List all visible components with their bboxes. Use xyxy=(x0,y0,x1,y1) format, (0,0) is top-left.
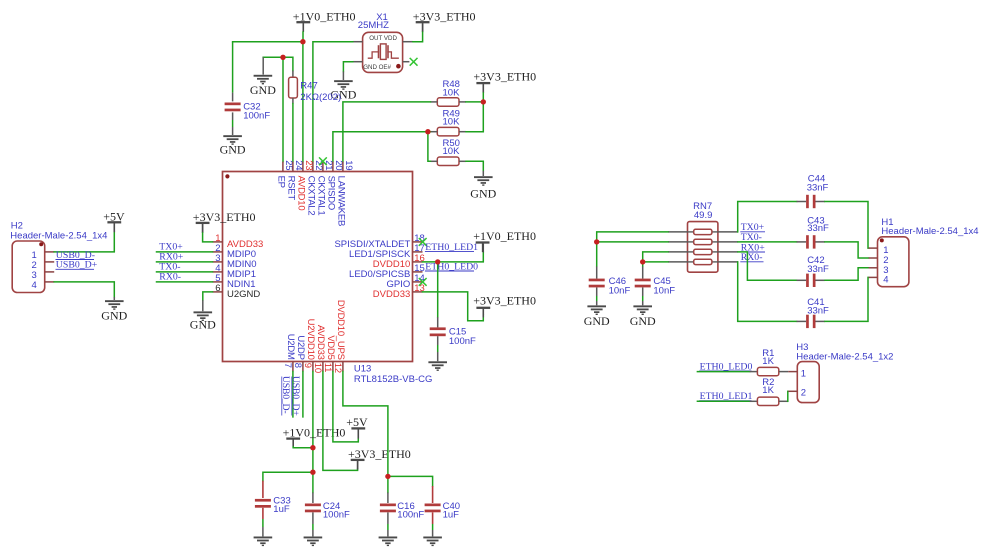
wire xyxy=(357,429,359,438)
resistor R1 1K xyxy=(757,348,778,376)
U13 pin 4 MDIP1 xyxy=(213,263,257,280)
wire xyxy=(459,101,466,103)
U13 pin 17 LED1/SPISCK xyxy=(349,243,425,260)
svg-text:Header-Male-2.54_1x4: Header-Male-2.54_1x4 xyxy=(10,231,107,242)
capacitor C46 10nF xyxy=(589,267,631,306)
svg-text:AVDD10: AVDD10 xyxy=(295,176,306,211)
wire xyxy=(54,232,114,252)
net label RX0+ xyxy=(740,242,765,253)
wire xyxy=(113,223,115,232)
wire xyxy=(428,132,431,162)
svg-text:100nF: 100nF xyxy=(323,509,350,520)
power +1V0_ETH0 xyxy=(473,229,536,252)
wire xyxy=(312,472,314,492)
capacitor C33 1uF xyxy=(255,481,291,537)
power +1V0_ETH0 xyxy=(283,426,346,449)
junction xyxy=(280,55,285,60)
wire xyxy=(292,372,294,417)
net label ETH0_LED1 xyxy=(425,242,478,253)
wire xyxy=(466,101,483,103)
wire xyxy=(437,262,439,317)
svg-text:2KΩ(202): 2KΩ(202) xyxy=(300,92,341,103)
U13 pin 13 DVDD33 xyxy=(373,283,425,300)
svg-text:9: 9 xyxy=(302,363,313,368)
RN7 pin left 3 xyxy=(668,251,688,253)
svg-text:25MHZ: 25MHZ xyxy=(358,20,389,31)
svg-text:100nF: 100nF xyxy=(397,509,424,520)
ground xyxy=(630,305,656,328)
net label TX0- xyxy=(740,232,763,243)
resistor R49 10K xyxy=(437,109,460,136)
power +5V xyxy=(346,415,368,438)
wire xyxy=(482,244,484,253)
capacitor C15 xyxy=(430,317,476,361)
wire xyxy=(202,300,204,311)
net label ETH0_LED0 xyxy=(699,361,752,372)
wire xyxy=(202,224,204,233)
wire xyxy=(459,160,466,162)
U13 pin 2 MDIP0 xyxy=(213,243,257,260)
svg-text:10nF: 10nF xyxy=(609,286,631,297)
wire xyxy=(597,241,668,243)
RN7 pin left 2 xyxy=(668,241,688,243)
svg-text:19: 19 xyxy=(343,160,354,170)
no-connect U13 pin 21 xyxy=(319,157,327,165)
U13 pin 3 MDIN0 xyxy=(213,253,257,270)
junction xyxy=(435,259,440,264)
ground xyxy=(379,537,398,547)
wire xyxy=(157,281,213,283)
U13 pin 6 U2GND xyxy=(213,283,261,300)
wire xyxy=(333,132,431,162)
wire xyxy=(203,292,213,300)
svg-text:33nF: 33nF xyxy=(807,182,829,193)
svg-text:RSET: RSET xyxy=(285,176,296,201)
wire xyxy=(342,72,344,81)
U13 pin 11 VDD5 xyxy=(322,335,336,372)
net label USB0_D- xyxy=(56,250,96,261)
power +5V xyxy=(103,210,125,232)
wire xyxy=(430,131,437,133)
ground xyxy=(428,361,447,371)
wire xyxy=(825,277,869,321)
ground xyxy=(254,537,273,547)
wire xyxy=(113,297,115,300)
svg-text:+3V3_ETH0: +3V3_ETH0 xyxy=(193,210,256,224)
net label RX0+ xyxy=(159,252,184,263)
wire xyxy=(738,241,797,243)
wire xyxy=(357,461,359,469)
crystal X1 25MHZ xyxy=(358,12,403,72)
svg-text:Header-Male-2.54_1x2: Header-Male-2.54_1x2 xyxy=(796,351,893,362)
wire xyxy=(597,232,668,242)
wire xyxy=(263,56,283,58)
X1 pin OE# xyxy=(403,61,410,63)
capacitor C42 33nF xyxy=(797,255,829,287)
capacitor C44 33nF xyxy=(797,174,829,209)
net label TX0+ xyxy=(740,222,765,233)
U13 pin 18 SPISDI/XTALDET xyxy=(334,233,424,250)
wire xyxy=(312,372,314,473)
net label ETH0_LED1 xyxy=(699,391,752,402)
U13 pin 5 NDIN1 xyxy=(213,273,256,290)
capacitor C43 33nF xyxy=(797,215,829,248)
power +3V3_ETH0 xyxy=(348,447,411,470)
wire xyxy=(738,252,797,280)
wire xyxy=(302,23,304,32)
wire xyxy=(413,32,423,42)
net label TX0+ xyxy=(159,242,183,253)
net label USB0_D+ (vertical) xyxy=(290,376,301,416)
wire xyxy=(825,268,869,281)
wire xyxy=(825,202,869,249)
junction xyxy=(310,470,315,475)
svg-text:33nF: 33nF xyxy=(807,306,829,317)
wire xyxy=(466,102,483,132)
connector H3 Header-Male-2.54_1x2 xyxy=(788,342,893,402)
svg-text:10K: 10K xyxy=(443,117,461,128)
net label RX0- xyxy=(740,252,763,263)
U13 pin 22 CKXTAL2 xyxy=(305,160,324,215)
resistor network RN7 49.9 xyxy=(688,201,718,272)
svg-text:+3V3_ETH0: +3V3_ETH0 xyxy=(473,70,536,84)
wire xyxy=(642,262,644,267)
power +1V0_ETH0 xyxy=(293,9,356,32)
wire xyxy=(697,400,749,402)
svg-text:+1V0_ETH0: +1V0_ETH0 xyxy=(283,426,346,440)
U13 pin 16 DVDD10 xyxy=(373,253,425,270)
svg-text:CKXTAL1: CKXTAL1 xyxy=(315,176,326,216)
wire xyxy=(779,371,789,373)
wire xyxy=(482,93,484,102)
net label USB0_D- (vertical) xyxy=(280,376,291,416)
wire xyxy=(643,252,668,262)
wire xyxy=(262,57,264,74)
capacitor C45 10nF xyxy=(635,267,676,306)
U13 pin 19 LANWAKEB xyxy=(335,160,354,226)
svg-text:U2DM: U2DM xyxy=(285,334,296,360)
svg-text:4: 4 xyxy=(883,275,888,286)
wire xyxy=(203,233,213,242)
ground xyxy=(584,305,610,328)
no-connect U13 pin 18 xyxy=(419,238,427,246)
wire xyxy=(282,57,284,161)
svg-text:CKXTAL2: CKXTAL2 xyxy=(305,176,316,216)
wire xyxy=(423,252,484,262)
junction xyxy=(481,99,486,104)
svg-text:+5V: +5V xyxy=(346,415,368,429)
connector H1 Header-Male-2.54_1x4 xyxy=(869,217,979,287)
U13 pin 24 RSET xyxy=(285,160,304,200)
RN7 pin right 4 xyxy=(718,261,738,263)
svg-text:DVDD33: DVDD33 xyxy=(373,289,411,300)
svg-text:7: 7 xyxy=(282,363,293,368)
svg-text:GND: GND xyxy=(363,64,377,71)
wire xyxy=(779,400,788,402)
power +3V3_ETH0 xyxy=(413,9,476,32)
svg-text:AVDD33: AVDD33 xyxy=(315,325,326,360)
resistor R48 10K xyxy=(437,79,460,106)
svg-text:+1V0_ETH0: +1V0_ETH0 xyxy=(473,229,536,243)
svg-text:DVDD10_UPS: DVDD10_UPS xyxy=(335,300,346,360)
U13 pin 21 CKXTAL1 xyxy=(315,160,334,215)
junction xyxy=(385,474,390,479)
wire xyxy=(333,372,358,442)
svg-text:U2VDD10: U2VDD10 xyxy=(305,319,316,360)
svg-text:+1V0_ETH0: +1V0_ETH0 xyxy=(293,9,356,23)
U13 pin 15 LED0/SPICSB xyxy=(349,263,425,280)
X1 pin OUT xyxy=(353,41,363,43)
wire xyxy=(482,171,484,176)
RN7 pin left 1 xyxy=(668,231,688,233)
wire xyxy=(157,251,213,253)
ground xyxy=(250,75,276,97)
U13 pin 20 SPISDO xyxy=(325,160,344,210)
ground xyxy=(470,176,496,201)
wire xyxy=(263,472,313,481)
U13 pin 12 DVDD10_UPS xyxy=(332,300,346,373)
RN7 pin right 2 xyxy=(718,241,738,243)
svg-text:10nF: 10nF xyxy=(653,286,675,297)
capacitor C24 100nF xyxy=(305,493,350,537)
wire xyxy=(343,102,431,162)
U13 pin 25 EP xyxy=(275,160,294,188)
junction xyxy=(300,39,305,44)
wire xyxy=(302,42,304,162)
wire xyxy=(738,202,797,232)
wire xyxy=(387,476,389,492)
RN7 pin right 3 xyxy=(718,251,738,253)
U13 pin 9 U2VDD10 xyxy=(302,319,316,372)
resistor R47 2K xyxy=(289,77,342,103)
svg-text:SPISDO: SPISDO xyxy=(325,176,336,210)
wire xyxy=(430,101,437,103)
U13 pin 10 AVDD33 xyxy=(312,325,326,373)
wire xyxy=(825,242,869,258)
wire xyxy=(233,41,303,43)
wire xyxy=(388,476,433,486)
ground xyxy=(304,537,323,547)
svg-text:U2GND: U2GND xyxy=(227,289,260,300)
ground xyxy=(190,311,216,331)
wire xyxy=(466,161,483,171)
net label RX0- xyxy=(159,272,181,283)
svg-text:U2DP: U2DP xyxy=(295,335,306,359)
wire xyxy=(302,372,304,417)
wire xyxy=(482,84,484,93)
resistor R2 1K xyxy=(757,377,778,406)
svg-text:GND: GND xyxy=(584,314,610,328)
svg-text:LANWAKEB: LANWAKEB xyxy=(335,176,346,226)
svg-text:GND: GND xyxy=(220,143,246,157)
svg-text:33nF: 33nF xyxy=(807,264,829,275)
wire xyxy=(313,42,353,162)
svg-text:RX0-: RX0- xyxy=(159,272,181,283)
svg-text:1: 1 xyxy=(801,368,806,379)
svg-text:OE#: OE# xyxy=(379,64,392,71)
svg-text:RTL8152B-VB-CG: RTL8152B-VB-CG xyxy=(354,374,433,385)
svg-text:10K: 10K xyxy=(443,87,461,98)
svg-text:Header-Male-2.54_1x4: Header-Male-2.54_1x4 xyxy=(881,226,978,237)
capacitor C40 1uF xyxy=(425,486,460,536)
junction xyxy=(425,129,430,134)
wire xyxy=(423,292,484,321)
X1 pin VDD xyxy=(403,41,413,43)
svg-text:1uF: 1uF xyxy=(273,504,290,515)
RN7 pin right 1 xyxy=(718,231,738,233)
ground xyxy=(101,300,127,322)
svg-text:R47: R47 xyxy=(300,81,317,92)
svg-text:1K: 1K xyxy=(762,356,774,367)
wire xyxy=(157,261,213,263)
svg-text:VDD5: VDD5 xyxy=(325,335,336,359)
X1 pin GND xyxy=(353,61,363,63)
wire xyxy=(292,71,294,78)
wire xyxy=(292,104,294,162)
svg-text:6: 6 xyxy=(215,283,220,294)
power +3V3_ETH0 xyxy=(473,70,536,93)
svg-text:1K: 1K xyxy=(762,385,774,396)
wire xyxy=(430,160,437,162)
svg-text:GND: GND xyxy=(470,187,496,201)
svg-text:100nF: 100nF xyxy=(243,110,270,121)
net label ETH0_LED0 xyxy=(425,261,478,272)
ground xyxy=(423,537,442,547)
svg-text:+5V: +5V xyxy=(103,210,125,224)
junction xyxy=(310,445,315,450)
svg-text:GND: GND xyxy=(101,309,127,323)
wire xyxy=(157,271,213,273)
wire xyxy=(750,371,758,373)
wire xyxy=(787,391,789,401)
wire xyxy=(283,57,293,70)
svg-text:GND: GND xyxy=(630,314,656,328)
net label TX0- xyxy=(159,262,180,273)
connector H2 Header-Male-2.54_1x4 xyxy=(10,220,107,292)
wire xyxy=(343,62,352,72)
capacitor C16 100nF xyxy=(380,493,425,537)
wire xyxy=(54,282,114,297)
svg-text:+3V3_ETH0: +3V3_ETH0 xyxy=(413,9,476,23)
svg-text:4: 4 xyxy=(32,280,37,291)
power +3V3_ETH0 xyxy=(473,293,536,317)
resistor R50 10K xyxy=(437,138,460,165)
junction xyxy=(640,259,645,264)
svg-text:10K: 10K xyxy=(443,146,461,157)
wire xyxy=(738,262,797,322)
svg-text:VDD: VDD xyxy=(384,35,398,42)
svg-text:+3V3_ETH0: +3V3_ETH0 xyxy=(348,447,411,461)
capacitor C32 xyxy=(225,42,271,135)
wire xyxy=(643,261,668,263)
svg-text:1uF: 1uF xyxy=(443,509,460,520)
U13 pin 1 AVDD33 xyxy=(213,233,264,250)
wire xyxy=(323,372,358,471)
svg-text:EP: EP xyxy=(275,176,286,188)
junction xyxy=(594,239,599,244)
U13 pin 14 GPIO xyxy=(387,273,425,290)
capacitor C41 33nF xyxy=(797,297,829,328)
no-connect X1 OE# xyxy=(410,58,418,66)
wire xyxy=(596,242,598,267)
svg-text:2: 2 xyxy=(801,388,806,399)
wire xyxy=(459,131,466,133)
ground xyxy=(330,80,356,101)
U13 pin 23 AVDD10 xyxy=(295,160,314,210)
svg-text:+3V3_ETH0: +3V3_ETH0 xyxy=(473,293,536,307)
net label USB0_D+ xyxy=(56,260,98,271)
svg-text:GND: GND xyxy=(250,83,276,97)
ground xyxy=(220,135,246,156)
svg-text:49.9: 49.9 xyxy=(694,210,713,221)
wire xyxy=(697,371,749,373)
wire xyxy=(750,400,758,402)
svg-text:33nF: 33nF xyxy=(807,223,829,234)
wire xyxy=(292,98,294,104)
wire xyxy=(482,309,484,315)
svg-text:100nF: 100nF xyxy=(449,336,476,347)
wire xyxy=(422,23,424,32)
svg-text:U13: U13 xyxy=(354,363,371,374)
no-connect U13 pin 14 xyxy=(419,278,427,286)
wire xyxy=(293,446,313,449)
RN7 pin left 4 xyxy=(668,261,688,263)
wire xyxy=(292,440,294,447)
U13 pin 7 U2DM xyxy=(282,334,296,372)
svg-text:8: 8 xyxy=(292,363,303,368)
svg-text:OUT: OUT xyxy=(369,35,382,42)
svg-text:GND: GND xyxy=(190,317,216,331)
wire xyxy=(302,32,304,42)
IC U13 RTL8152B-VB-CG xyxy=(223,172,433,385)
power +3V3_ETH0 xyxy=(193,210,256,232)
U13 pin 8 U2DP xyxy=(292,335,306,371)
wire xyxy=(343,372,388,477)
